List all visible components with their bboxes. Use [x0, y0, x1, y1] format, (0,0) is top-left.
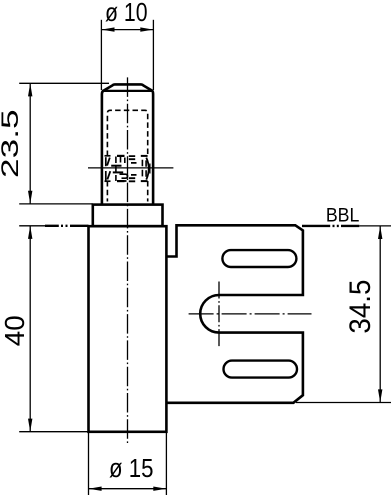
detent spring top dash [141, 155, 148, 157]
arrow 23.5 top [28, 83, 32, 96]
arrow 40 bottom [28, 419, 32, 432]
extension line ø10 left [100, 20, 102, 90]
notch centre line horizontal [189, 313, 312, 315]
arrow 34.5 bottom [378, 389, 382, 402]
detent screw flange lower bar [113, 171, 123, 173]
upper slot [222, 250, 296, 267]
lower slot [224, 361, 298, 378]
dimension line 40 [29, 226, 31, 432]
extension line ø15 left [88, 432, 90, 495]
svg-text:23.5: 23.5 [0, 109, 24, 178]
detent screw head top dash [117, 155, 125, 157]
extension line 23.5 bottom [19, 203, 93, 205]
detent thread marks upper = [129, 156, 135, 159]
detent spring coil left [141, 160, 143, 177]
svg-text:ø 10: ø 10 [105, 0, 148, 27]
arrow ø10 right [140, 27, 153, 31]
extension line 40 bottom [19, 431, 88, 433]
arrow ø15 left [89, 487, 102, 491]
mounting plate outline [166, 225, 303, 402]
detent screw flange upper bar [111, 165, 121, 167]
svg-text:ø 15: ø 15 [109, 455, 154, 483]
detent left wall lower [105, 171, 107, 181]
extension line 34.5 bottom [296, 402, 391, 404]
detent spring coil right [145, 160, 147, 176]
band reference line right thin [359, 225, 391, 227]
svg-text:BBL: BBL [326, 205, 360, 226]
dimension line ø10 [101, 29, 153, 31]
detent left chamfer upper [107, 158, 110, 166]
pin shoulder line [102, 90, 153, 92]
extension line ø15 right [165, 432, 167, 495]
detent mechanism hidden bottom line [105, 180, 111, 182]
pin bore hidden line lower left [106, 181, 108, 202]
detent ball tick [149, 164, 151, 174]
detent screw core upper [121, 157, 125, 163]
notch centre line vertical [218, 282, 220, 347]
band reference line left thin [19, 225, 45, 227]
dimension line ø15 [89, 488, 167, 490]
detent screw right edge [131, 163, 137, 175]
svg-text:40: 40 [0, 315, 30, 346]
svg-text:34.5: 34.5 [344, 280, 377, 334]
detent left wall upper [105, 157, 107, 166]
pin bore hidden outline upper [107, 110, 147, 156]
band reference line right dash-dot [302, 225, 359, 227]
arrow ø15 right [153, 487, 166, 491]
pin outline [102, 84, 153, 204]
dimension line 23.5 [29, 83, 31, 204]
extension line ø10 right [152, 20, 154, 90]
detent mechanism hidden top line [105, 155, 111, 157]
detent screw left edge [115, 157, 117, 182]
arrow 34.5 top [378, 226, 382, 239]
extension line 23.5 top [19, 82, 109, 84]
detent spring bottom dash [141, 180, 148, 182]
arrow ø10 left [101, 27, 114, 31]
detent screw slot s-curve [120, 174, 128, 181]
arrow 23.5 bottom [28, 191, 32, 204]
pin bore hidden line lower right [147, 181, 149, 202]
detent thread marks lower = [129, 178, 135, 181]
dimension line 34.5 [379, 226, 381, 403]
detent screw bottom dash [117, 180, 125, 182]
cross hole centre line horizontal [88, 167, 173, 169]
main vertical centre line [127, 77, 129, 445]
arrow 40 top [28, 226, 32, 239]
knuckle body outline [89, 226, 167, 432]
collar outline [93, 205, 163, 227]
detent left chamfer lower [107, 171, 110, 179]
detent ball arc [146, 158, 148, 180]
band reference line left dash-dot [45, 225, 89, 227]
